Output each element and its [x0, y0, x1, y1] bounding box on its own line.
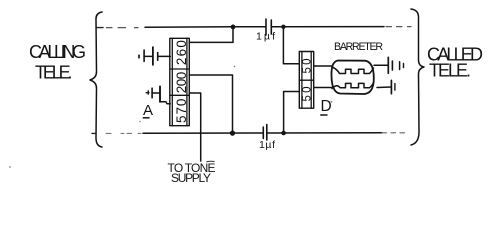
svg-text:1µf: 1µf [256, 31, 275, 43]
svg-text:A: A [143, 102, 153, 119]
svg-text:200: 200 [174, 72, 189, 94]
svg-text:1µf: 1µf [259, 139, 275, 151]
svg-text:TELE.: TELE. [429, 61, 471, 81]
svg-text:570: 570 [174, 99, 189, 124]
svg-text:TELE.: TELE. [35, 63, 73, 83]
svg-text:SUPPLY: SUPPLY [171, 171, 211, 185]
svg-text:260: 260 [174, 40, 189, 65]
svg-text:BARRETER: BARRETER [334, 41, 383, 53]
svg-text:CALLING: CALLING [29, 42, 86, 62]
svg-text:D: D [321, 98, 332, 115]
